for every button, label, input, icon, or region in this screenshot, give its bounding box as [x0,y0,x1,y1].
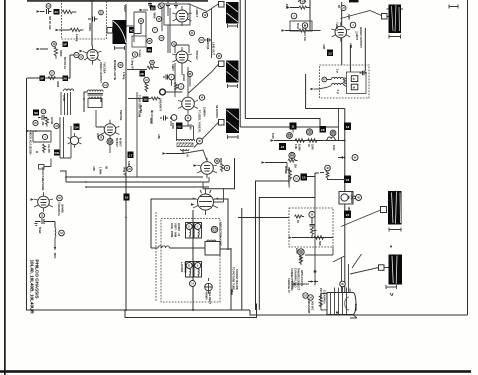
yoke blob left-c bracket [228,135,239,139]
node circle 216-161 [215,159,220,164]
wire main vertical bus x345 [344,109,346,294]
yoke blob left-b [226,61,239,83]
node circle 19 double [107,139,113,145]
svg-text:220K: 220K [171,123,175,129]
svg-text:A5E: A5E [157,134,161,139]
wire y163 [44,159,51,167]
node circle 14 301-252 [298,249,304,255]
leader wire to yoke left-c [194,122,224,148]
wire transformer bottom stub [350,315,357,319]
resistor R4 on rail [48,77,56,80]
resistor R16 vertical [326,171,329,178]
wire y131 [30,130,51,132]
node circle 209-35 [199,37,204,42]
wire bus y182 [66,181,209,183]
resistor R22 vertical [175,83,178,91]
svg-text:¼6BL7: ¼6BL7 [195,8,199,18]
code square 11 [290,123,297,130]
wire vertical x241 [239,0,241,127]
wire x315 down [314,198,316,286]
node circle 56-126 [54,123,59,128]
svg-text:JW: JW [41,122,45,126]
code square 23 on bus [344,176,351,184]
svg-text:HOR - 280M: HOR - 280M [170,223,174,237]
node circle 155-30 [153,28,158,33]
svg-text:C8: C8 [321,128,325,132]
wire top mid verticals [162,7,168,53]
node 12b circle [41,109,46,114]
code square 5W [54,150,60,156]
node circle flyback B [322,77,327,82]
svg-text:VR6A/VR9B: VR6A/VR9B [307,299,311,313]
wire sync bottom rail [230,248,232,310]
resistor R2 [70,28,83,31]
svg-text:1 5mg: 1 5mg [122,72,126,80]
tube V2 sound det [172,6,192,26]
resistor R14 y140 [308,139,318,143]
schematic bottom border right [250,310,468,315]
inner box flyback [347,72,367,94]
wire vertical x315 [314,173,316,198]
wire main vertical bus x126 [125,4,127,310]
junction 315-271.5 [314,270,317,273]
wire vertical x365 into flyback box [350,28,365,72]
schematic bottom border left [27,78,251,310]
wire arrow y157 [338,157,345,159]
svg-text:3300: 3300 [311,144,315,150]
wire x287 down [286,163,288,171]
node 11 circle [52,42,57,47]
code square 23a [327,50,333,57]
svg-text:D4: D4 [75,125,79,129]
wire y188 into sync tube [203,158,235,189]
transformer primary leads [335,286,351,293]
tube V9 audio output [34,192,53,212]
node circle 190-74 [188,72,193,77]
svg-text:A5K: A5K [92,166,96,171]
capacitor C8 top [148,0,152,8]
code square 21B [143,97,149,103]
wire arrow 152-114 [151,114,153,124]
node circle 141-21 [139,19,144,24]
svg-text:4DQ6: 4DQ6 [206,42,210,50]
arrow flyback left [314,88,319,90]
svg-text:B: B [353,77,355,81]
svg-text:(6AW8): (6AW8) [61,204,65,213]
svg-text:50 M: 50 M [296,23,300,29]
resistor R6 [299,29,321,32]
wire bus y171 stub [60,171,66,182]
wire horizontal y127 [240,126,338,128]
wire stub x305 [304,32,306,37]
svg-text:1W: 1W [303,37,307,41]
wire diag to tube V7 [183,150,207,161]
svg-text:NR 3C GB: NR 3C GB [48,16,52,29]
node circle 146-80 [144,77,150,83]
wire y255 right [305,247,333,255]
tube V1 video output [83,45,102,64]
code square 15 [301,174,308,181]
arrow into C1 [37,10,41,12]
node circle 181-86 [178,84,184,90]
svg-text:580K: 580K [153,13,157,19]
svg-text:16: 16 [125,196,129,200]
junction y131 [35,130,37,132]
code square 2B [147,47,153,53]
arrow V7 grid [194,164,198,166]
ground sym C6 [35,222,38,226]
node circle 45-137 [42,134,47,139]
svg-text:△4BC7: △4BC7 [355,30,359,41]
node circle 161-38 [159,36,164,41]
wire tube V4 feed top [341,2,343,65]
svg-text:1K: 1K [296,220,300,223]
svg-text:24 EN: 24 EN [354,304,358,311]
resistor R7 vertical [46,117,49,127]
wire y172 stub [320,173,345,180]
svg-text:3 yr: 3 yr [336,90,340,95]
svg-text:5.6K: 5.6K [127,161,131,167]
node circle N [308,295,313,300]
wire vertical x193 bottom [192,210,194,310]
arrow V8 grid [191,203,195,205]
wire left rail top [27,55,70,78]
wire x338.5 drop to coil [338,109,340,141]
yoke blob left-a [226,2,239,24]
box noise inv [290,21,312,31]
wires x60 x63.5 verticals [60,117,71,158]
svg-text:TO RF UNIT TERM: TO RF UNIT TERM [138,95,142,117]
svg-text:SOCKET BOARD: SOCKET BOARD [235,269,239,290]
svg-text:DO NOT MEASURE: DO NOT MEASURE [41,167,45,191]
capacitor C4 left mid [38,115,47,120]
tube V5a small [68,133,82,147]
resistor R20 vertical [299,255,302,265]
capacitor C9 top [174,0,178,9]
capacitor C10 [163,75,170,80]
arrow V9 grid [31,198,35,200]
yoke blob mid-right [388,191,402,225]
tube V4 horiz output [331,22,350,42]
tube V8 vert osc [193,189,219,215]
svg-text:16: 16 [147,48,151,52]
code square 22 [279,143,286,150]
svg-text:240V: 240V [149,118,153,124]
node circle G [98,135,103,140]
svg-text:M: M [353,85,355,89]
dashed box vert output [289,208,333,247]
leader wire to yoke top-right [341,11,389,19]
wire x310 vertical [309,0,311,30]
svg-text:¼6BL7: ¼6BL7 [335,22,339,32]
code square D4 [74,124,80,131]
node circle 152-63 [150,60,155,65]
transformer T2 vert output [177,140,195,151]
node 18 circle [74,52,79,57]
arrow y30 [56,29,60,31]
coil L3 top right [299,0,306,2]
svg-text:3H: 3H [105,166,109,169]
svg-text:A5B: A5B [349,43,353,48]
svg-text:470K: 470K [62,95,66,101]
tube V6 vert output 6K6 [100,120,119,140]
junction dots buses [65,176,67,178]
svg-text:DEFLECTION YOKE: DEFLECTION YOKE [219,222,223,246]
dashed inner sync box edge [155,212,157,302]
yoke blob top-right bracket [389,35,401,39]
junction S2-y217 [258,217,260,219]
box interlock [205,242,220,256]
wire arrow y153 [166,153,183,155]
bracket under blob B1 [115,46,125,50]
svg-text:SE NOTES: SE NOTES [215,105,219,118]
code square 20 [320,126,327,133]
svg-text:TO DEFL YOKE PL: TO DEFL YOKE PL [198,110,202,133]
svg-text:1 88%: 1 88% [99,167,103,175]
node circle 171-77 [169,74,175,80]
svg-text:450MA: 450MA [205,292,209,300]
code box B+ [351,76,358,82]
label 4DQ6 LINE OUT [205,38,212,42]
wire y217 to yoke [238,217,289,219]
node circle at tube V1 [79,55,84,60]
svg-text:1M: 1M [294,164,298,168]
wire sq15 to x315 [307,173,319,177]
svg-text:HORIZ - 43: HORIZ - 43 [177,223,181,237]
schematic right border [467,0,469,315]
svg-text:21HB5A: 21HB5A [203,107,207,117]
wire bus y177 [66,176,203,178]
wire V3 to V10 [165,63,190,97]
arrow down 55-250 [54,242,56,249]
node circle 192-32 [190,31,195,36]
wire x211 vertical [211,9,213,58]
node 11 circle rail [50,71,55,76]
wire step S2 [259,198,315,311]
node circle 205-15 [202,12,207,17]
wire vertical x244.5 [244,0,246,119]
node circle 333-133 double [330,130,336,136]
component stack vert box [310,218,317,238]
transformer T1 can [88,99,102,108]
coil L7 bottom-left [54,228,57,242]
svg-text:330K: 330K [59,50,63,57]
svg-text:5F: 5F [40,77,44,81]
wire V4 to bus [329,52,333,54]
black blob flyback core B1 [113,20,127,44]
code square L7 [128,152,134,159]
svg-text:220V: 220V [295,248,299,254]
node circle 327-168 [325,165,331,171]
node circle 13 yoke [211,226,217,232]
code square 2D [150,6,156,11]
svg-text:500 50C: 500 50C [311,301,315,311]
wire y69 [127,69,147,71]
junction 345-140 [344,140,346,142]
capacitor C6 [37,219,55,228]
svg-text:PWOSE: PWOSE [119,110,123,121]
page bottom edge [0,370,471,373]
wire V8 top bend [203,177,209,189]
svg-text:380V: 380V [53,253,57,259]
coil L4 y140 [326,137,336,141]
yoke blob mid-right bracket [389,228,401,232]
wire stub y30 [59,29,70,31]
inner bottom border box [125,304,257,318]
resistor R13 y140 [295,139,305,143]
svg-text:AG 300: AG 300 [47,144,51,153]
yoke blob mid-right leader box [381,207,387,213]
node circle 292-155 double [289,152,295,158]
svg-text:5F: 5F [63,43,67,47]
node circle 354-157 [352,155,358,161]
transformer T1 video [88,90,104,98]
svg-text:HORIZ OUTPUT: HORIZ OUTPUT [359,27,363,48]
svg-text:23: 23 [346,178,350,182]
node circle 35-123 [33,120,38,125]
junction 37-152 [36,151,38,153]
node circle 129-169 [127,166,132,171]
coil L5 flyback upper [332,77,344,79]
svg-text:1 3mg W: 1 3mg W [131,58,135,69]
leader wire to yoke left-b [188,64,224,94]
wire T2 leads [171,121,194,154]
wire bus feed L from flyback [306,74,345,109]
svg-text:1.8+OHS: 1.8+OHS [184,262,188,273]
node circle 341-285 [340,281,346,287]
selenium rectifier [205,278,213,294]
svg-text:MODEM LOW 3E: MODEM LOW 3E [113,60,117,81]
dashed box AGC top-left [62,0,107,39]
node circle 16 yoke [190,281,196,287]
resistor R15 y160.5 [288,159,298,162]
wire x70 stub to circle [70,54,74,56]
leader box yoke left-a [219,2,225,8]
junction T1 [83,98,85,100]
wire horizontal y117.5 to x321 [245,119,320,128]
wire x170 vertical [169,8,171,53]
wire transformer feeds [342,254,362,292]
node circle 135-54 [132,52,137,57]
node circle 18 227-168 [224,165,229,170]
svg-text:10L40, 10L40B, 10L40UR: 10L40, 10L40B, 10L40UR [29,260,34,315]
wire diag to bus [333,256,345,262]
wire interlock to rail [220,248,231,250]
arrow left 143-10 [143,9,148,11]
leader box yoke left-b [219,61,225,67]
node 12 circle top-left [46,4,51,9]
small box on blob B1 [107,28,113,34]
svg-text:VERT: VERT [171,64,175,71]
resistor R17 vert box [295,215,305,218]
node circle 343-8 [341,6,346,11]
node circle 174-44 [172,42,177,47]
svg-text:21EA(P4)/A: 21EA(P4)/A [323,290,327,304]
leader wire to yoke lower-right [350,268,389,275]
svg-text:M BUT: M BUT [119,138,123,147]
node circle 188-118 [185,115,191,121]
node circle E 59-198 [57,195,63,201]
resistor R10 vertical [145,83,148,92]
code square 13 [344,123,351,131]
wire vertical x242 bottom [241,208,243,310]
svg-text:5mg W: 5mg W [123,167,127,176]
svg-text:LINEARITY: LINEARITY [159,98,163,112]
svg-text:HOLD: HOLD [182,74,186,81]
junction bottom border x193 [192,309,194,311]
junction S1-y217 [255,217,257,219]
wire box y131-142 [33,131,51,142]
svg-text:100M: 100M [298,144,302,150]
svg-text:A50: A50 [285,4,289,10]
yoke blob left-b bracket [228,84,238,88]
svg-text:11: 11 [291,125,295,129]
wire y140 x322-345 [322,140,326,142]
wire V8 plate to right [214,188,224,202]
yoke box coil assembly lower right [194,262,202,278]
svg-text:15: 15 [302,176,306,180]
yoke blob lower-right [389,255,403,285]
wire arrow y7.5 [290,7,299,9]
node circle 219-56 [217,54,222,59]
capacitor C5 [160,116,168,121]
node circle g 42-215 [39,213,44,218]
svg-text:1000: 1000 [189,124,193,130]
svg-text:8.1H: 8.1H [332,145,336,151]
svg-text:4700K: 4700K [88,23,92,31]
dashed box deflection yoke [161,219,220,303]
yoke box coil assembly upper right [194,223,202,239]
code square 5F [63,42,69,48]
node circle B dark [160,89,166,95]
coil L6 flyback lower [332,83,344,85]
wire tube V3 leads [175,45,189,75]
svg-text:VERT - 56M: VERT - 56M [174,223,178,237]
tube V7 sync sep [197,158,217,179]
code square 2A6 [63,76,69,82]
leader box yoke lower-right [379,265,385,271]
yoke box coil assembly upper left [186,223,194,239]
code square 4C [129,27,135,33]
leader wire to yoke mid-right [341,210,381,227]
svg-text:L7: L7 [129,153,133,157]
wire y248 with coil [151,247,158,249]
node circle 159-19 [157,17,162,22]
node circle 312-214 [309,211,315,217]
box sync section [151,199,196,248]
svg-text:24: 24 [346,213,350,217]
wire y30.5 [285,30,299,32]
wire vertical x92 top [91,0,93,46]
svg-text:46 NR: 46 NR [50,117,54,124]
svg-text:CHECK ADJ 120OB+: CHECK ADJ 120OB+ [29,130,33,156]
node circle 302-1 [300,0,305,4]
arrow left y49 [40,48,48,50]
arrows anode [308,281,318,283]
code square 2C [54,9,60,15]
coil L2 horizontal [64,89,74,91]
node circle H 295-178 [294,176,300,182]
svg-text:23: 23 [328,51,332,55]
svg-text:450V: 450V [347,14,351,20]
leader wire to yoke left-a [188,4,225,12]
wire step S1 [256,181,291,310]
box sound IF top [164,4,190,25]
svg-text:1meg: 1meg [75,34,79,42]
svg-text:1.8K: 1.8K [294,144,298,150]
resistor R18 y237 [314,236,324,240]
wire flyback hooks [319,80,347,90]
